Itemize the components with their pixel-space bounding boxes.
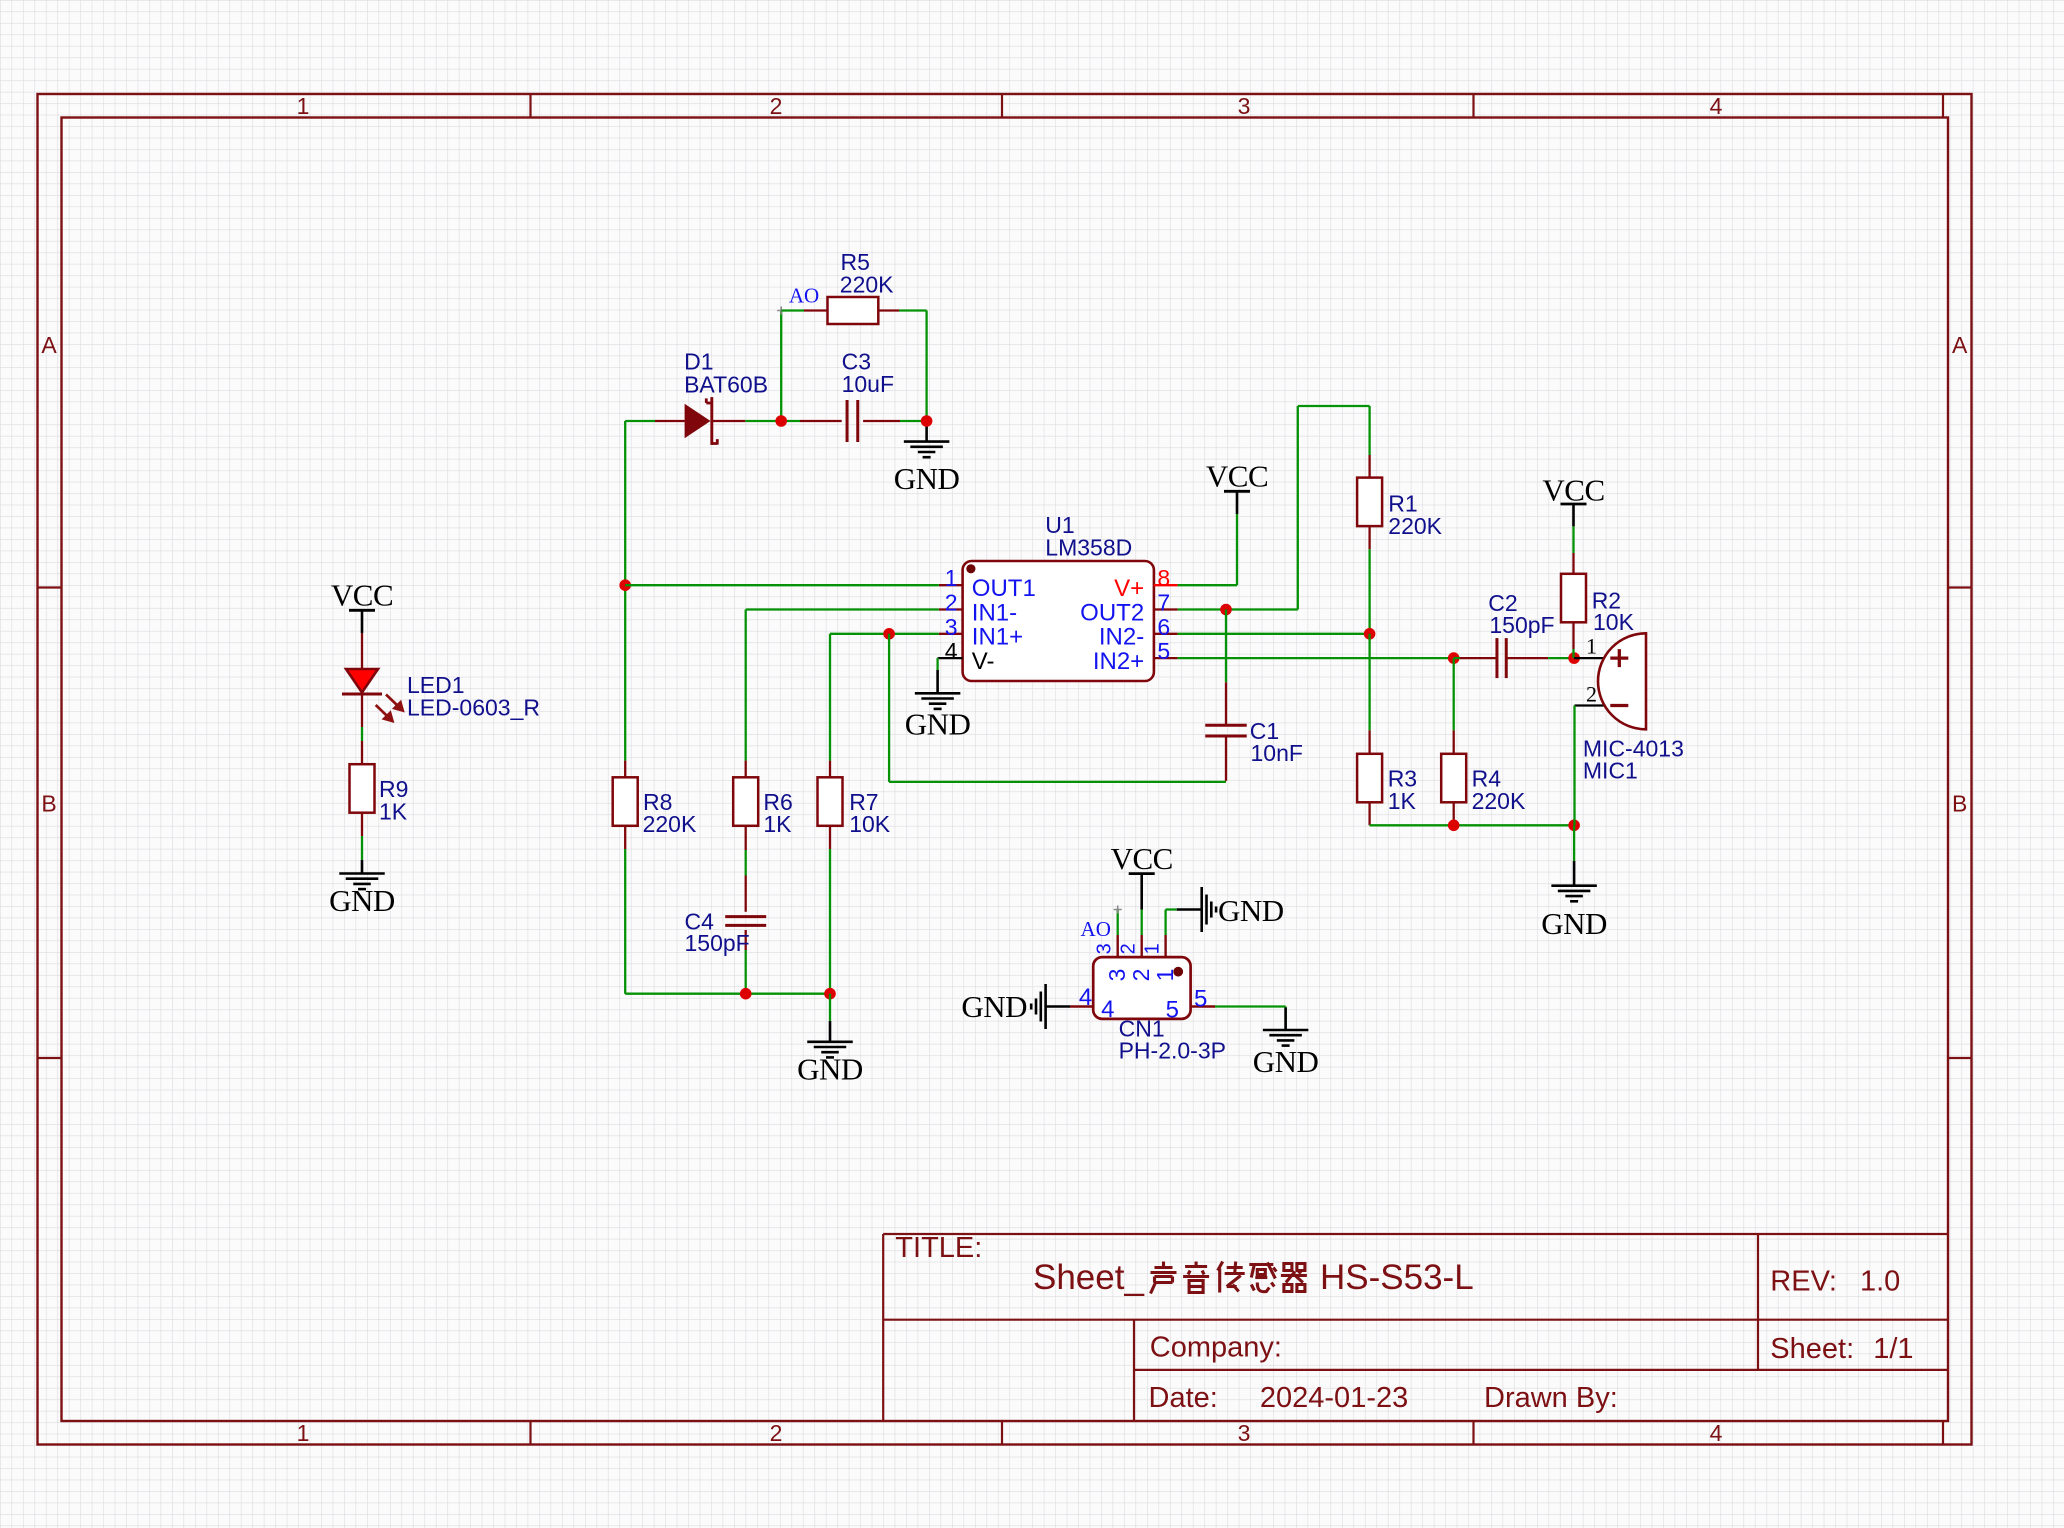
svg-text:HS-S53-L: HS-S53-L: [1320, 1258, 1474, 1297]
svg-text:VCC: VCC: [1206, 459, 1268, 494]
svg-text:2: 2: [770, 93, 783, 119]
svg-text:1/1: 1/1: [1873, 1333, 1913, 1365]
svg-text:IN1+: IN1+: [972, 624, 1023, 651]
svg-text:2: 2: [1128, 969, 1154, 982]
svg-text:1: 1: [945, 565, 958, 591]
svg-text:Date:: Date:: [1149, 1382, 1218, 1414]
svg-text:GND: GND: [905, 706, 971, 741]
svg-text:4: 4: [1079, 984, 1092, 1011]
svg-text:3: 3: [1238, 93, 1251, 119]
svg-text:B: B: [1952, 791, 1967, 817]
svg-text:10uF: 10uF: [842, 371, 894, 397]
svg-text:2024-01-23: 2024-01-23: [1260, 1382, 1408, 1414]
svg-text:10nF: 10nF: [1251, 740, 1303, 766]
svg-text:LM358D: LM358D: [1045, 534, 1132, 560]
svg-text:GND: GND: [1218, 893, 1284, 928]
svg-text:3: 3: [1104, 969, 1130, 982]
svg-text:1: 1: [1586, 634, 1597, 659]
svg-text:VCC: VCC: [1542, 472, 1604, 507]
svg-text:220K: 220K: [1472, 788, 1526, 814]
svg-text:2: 2: [945, 590, 958, 616]
svg-text:150pF: 150pF: [685, 930, 750, 956]
svg-text:6: 6: [1157, 614, 1170, 640]
svg-text:VCC: VCC: [1111, 841, 1173, 876]
svg-text:4: 4: [945, 638, 958, 664]
svg-text:PH-2.0-3P: PH-2.0-3P: [1119, 1038, 1226, 1064]
svg-text:1.0: 1.0: [1860, 1266, 1900, 1298]
svg-text:B: B: [41, 791, 56, 817]
svg-text:1K: 1K: [379, 798, 408, 824]
svg-text:IN2-: IN2-: [1099, 624, 1144, 651]
svg-text:4: 4: [1710, 93, 1723, 119]
svg-text:AO: AO: [789, 284, 819, 308]
svg-text:3: 3: [1094, 943, 1116, 954]
svg-text:V-: V-: [972, 648, 995, 675]
svg-text:2: 2: [1118, 943, 1140, 954]
svg-text:IN2+: IN2+: [1093, 648, 1144, 675]
svg-text:1: 1: [297, 1420, 310, 1446]
svg-text:GND: GND: [961, 989, 1027, 1024]
svg-text:220K: 220K: [1388, 513, 1442, 539]
svg-text:V+: V+: [1114, 575, 1144, 602]
svg-text:OUT1: OUT1: [972, 575, 1036, 602]
svg-text:1: 1: [1142, 943, 1164, 954]
svg-text:10K: 10K: [849, 811, 891, 837]
svg-text:GND: GND: [894, 461, 960, 496]
svg-text:TITLE:: TITLE:: [895, 1232, 982, 1264]
svg-text:A: A: [1952, 332, 1968, 358]
svg-text:10K: 10K: [1593, 609, 1635, 635]
svg-text:3: 3: [945, 614, 958, 640]
svg-text:8: 8: [1157, 565, 1170, 591]
svg-text:220K: 220K: [840, 272, 894, 298]
svg-text:LED-0603_R: LED-0603_R: [407, 695, 540, 721]
svg-text:3: 3: [1238, 1420, 1251, 1446]
svg-text:1K: 1K: [763, 811, 792, 837]
svg-text:MIC1: MIC1: [1583, 758, 1638, 784]
svg-text:IN1-: IN1-: [972, 599, 1017, 626]
svg-text:1: 1: [297, 93, 310, 119]
svg-text:Company:: Company:: [1150, 1332, 1282, 1364]
svg-text:4: 4: [1710, 1420, 1723, 1446]
svg-text:220K: 220K: [643, 811, 697, 837]
svg-text:1K: 1K: [1388, 788, 1417, 814]
svg-text:BAT60B: BAT60B: [684, 371, 768, 397]
svg-text:5: 5: [1194, 986, 1207, 1013]
svg-text:A: A: [41, 332, 57, 358]
svg-text:GND: GND: [797, 1052, 863, 1087]
svg-text:5: 5: [1157, 638, 1170, 664]
svg-text:Sheet:: Sheet:: [1770, 1333, 1854, 1365]
svg-text:2: 2: [1586, 682, 1597, 707]
svg-text:4: 4: [1101, 996, 1114, 1023]
svg-text:Sheet_: Sheet_: [1033, 1258, 1144, 1297]
svg-text:1: 1: [1152, 969, 1178, 982]
svg-text:GND: GND: [1253, 1044, 1319, 1079]
svg-text:GND: GND: [329, 883, 395, 918]
svg-text:Drawn By:: Drawn By:: [1484, 1382, 1618, 1414]
svg-text:AO: AO: [1081, 917, 1111, 941]
svg-text:5: 5: [1166, 997, 1179, 1024]
svg-text:150pF: 150pF: [1489, 612, 1554, 638]
svg-text:OUT2: OUT2: [1080, 599, 1144, 626]
svg-text:7: 7: [1157, 590, 1170, 616]
svg-text:REV:: REV:: [1770, 1266, 1837, 1298]
svg-text:GND: GND: [1541, 906, 1607, 941]
svg-text:2: 2: [770, 1420, 783, 1446]
svg-text:VCC: VCC: [331, 578, 393, 613]
